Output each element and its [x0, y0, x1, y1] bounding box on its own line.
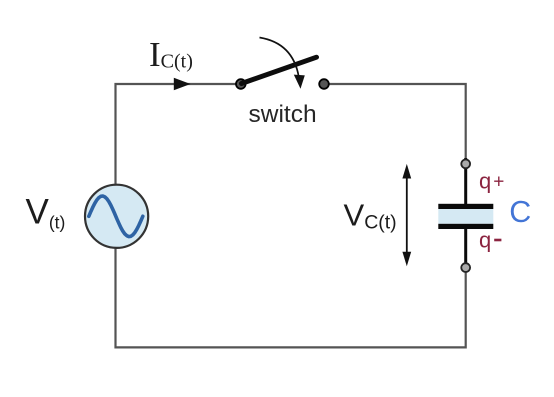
capacitor C top plate: [438, 204, 493, 209]
label q- bottom plate charge: [494, 239, 501, 242]
switch lever arm: [242, 57, 317, 83]
V_C(t) arrow top head: [402, 164, 411, 179]
wire: capacitor bottom stub (bottom plate to node): [464, 228, 467, 272]
node: capacitor top terminal: [461, 160, 470, 169]
svg-text:VC(t): VC(t): [344, 198, 397, 234]
node: capacitor bottom terminal: [461, 263, 470, 272]
svg-text:q: q: [479, 228, 491, 253]
svg-text:IC(t): IC(t): [149, 35, 193, 74]
wire: capacitor top stub (node to top plate): [464, 158, 467, 205]
wire: left branch from source top up and across to switch left terminal: [116, 84, 237, 185]
svg-text:C: C: [509, 195, 531, 229]
V_C(t) arrow bottom head: [402, 252, 411, 267]
wire: from switch right terminal across top-right corner down to capacitor top node: [329, 84, 466, 160]
switch closing motion arc: [260, 38, 299, 78]
switch right terminal dot: [319, 79, 329, 89]
switch motion arrowhead: [294, 75, 305, 89]
voltage source V(t) circle: [85, 185, 148, 248]
svg-text:switch: switch: [249, 101, 317, 128]
V_C(t) measurement double arrow shaft: [406, 176, 408, 255]
switch left terminal dot: [236, 79, 246, 89]
wire: bottom return path from capacitor bottom node to source bottom: [116, 248, 466, 348]
capacitor C bottom plate: [438, 224, 493, 229]
capacitor C dielectric fill: [438, 209, 493, 224]
svg-text:V(t): V(t): [26, 192, 66, 232]
svg-text:q+: q+: [479, 169, 504, 194]
voltage source sine wave: [89, 196, 143, 237]
current direction arrow on top wire: [174, 78, 191, 90]
